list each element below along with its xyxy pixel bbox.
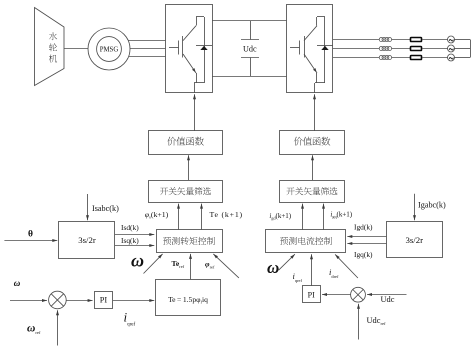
inductor La: [379, 37, 391, 41]
wire: [422, 39, 448, 41]
svg-text:θ: θ: [28, 229, 33, 239]
svg-text:Igd(k): Igd(k): [354, 222, 373, 231]
generator PMSG inner: [97, 37, 122, 62]
svg-text:3s/2r: 3s/2r: [78, 235, 96, 245]
diode arrowhead: [200, 46, 207, 50]
IGBT emitter slant: [304, 54, 317, 73]
label 预测电流控制: [280, 237, 332, 245]
wire igq prediction: [322, 204, 325, 230]
IGBT body bar: [304, 36, 306, 58]
wire iqref to PCC: [335, 254, 358, 278]
label 预测转矩控制: [163, 237, 215, 245]
wire gate drive to grid converter: [313, 94, 316, 131]
svg-text:ω: ω: [131, 251, 144, 271]
wire Udc_ref to summer: [357, 304, 360, 340]
wire Udc to summer: [367, 293, 407, 296]
wire to bus: [455, 48, 471, 50]
IGBT gate bar: [178, 41, 180, 55]
svg-text:3s/2r: 3s/2r: [405, 235, 423, 245]
wire Igabc into 3s/2r: [413, 194, 416, 221]
wire Te_ref to PTC: [189, 254, 192, 279]
wire grid phase c: [333, 57, 379, 59]
wire top bracket: [196, 16, 204, 18]
box predictive current control: [266, 230, 346, 253]
capacitor Udc plate top: [241, 39, 259, 41]
AC source b: [448, 45, 455, 52]
wire summer to PI R: [322, 293, 351, 296]
box 3s/2r grid: [387, 222, 443, 258]
wire PI to Te box: [113, 299, 154, 302]
wire grid phase a: [333, 39, 379, 41]
label 水轮机: [49, 32, 57, 62]
IGBT gate bar: [299, 41, 301, 55]
wire cap bottom lead: [250, 58, 252, 77]
label 价值函数 R: [294, 137, 331, 146]
box predictive torque control: [157, 230, 223, 253]
wire idref to PCC: [310, 254, 313, 286]
wire cap top lead: [250, 21, 252, 40]
AC source a: [448, 36, 455, 43]
wire torque prediction: [200, 204, 203, 230]
wire omega_ref to summer: [56, 310, 59, 345]
wire theta input: [4, 239, 57, 242]
diode cathode bar: [196, 45, 212, 47]
wire stator phase a: [129, 40, 166, 42]
wire summer to PI L: [66, 299, 92, 302]
grid bus vertical: [470, 40, 472, 58]
svg-text:Udc: Udc: [243, 45, 257, 54]
svg-text:Igabc(k): Igabc(k): [418, 201, 446, 210]
machine-side converter box: [166, 5, 213, 93]
wire omega to summer: [10, 299, 47, 302]
svg-text:Te (k+1): Te (k+1): [210, 210, 243, 219]
resistor Ra: [411, 38, 422, 42]
svg-text:Isabc(k): Isabc(k): [92, 204, 119, 213]
inductor Lb: [379, 46, 391, 50]
diode branch vertical: [324, 17, 326, 83]
wire emitter down: [316, 73, 318, 83]
wire grid phase b: [333, 48, 379, 50]
grid-side converter box: [287, 5, 333, 93]
summing junction R: [351, 287, 366, 302]
wire gate lead: [290, 47, 300, 49]
wire to bus: [455, 39, 471, 41]
svg-text:Te = 1.5pφfiq: Te = 1.5pφfiq: [168, 295, 208, 304]
capacitor Udc plate bottom: [241, 57, 259, 59]
wire control stub: [314, 83, 316, 93]
wire Igq: [347, 242, 386, 245]
label 开关矢量筛选 R: [286, 187, 337, 195]
wire DC+ rail: [212, 20, 287, 22]
box 3s/2r stator: [59, 222, 115, 259]
summing junction L: [49, 291, 67, 309]
wire flux prediction: [177, 204, 180, 230]
wire gate lead: [169, 47, 179, 49]
wire stator phase c: [129, 56, 166, 58]
wire: [422, 57, 448, 59]
turbine (water turbine 水轮机): [35, 8, 65, 86]
IGBT collector slant: [183, 26, 196, 41]
wire collector up: [316, 17, 318, 26]
box Te=1.5p phi iq: [156, 280, 221, 316]
wire to bus: [455, 57, 471, 59]
wire Isq: [115, 244, 154, 247]
label 价值函数 L: [167, 137, 204, 146]
box PI L: [95, 292, 113, 309]
resistor Rb: [411, 47, 422, 51]
wire collector up: [196, 17, 198, 26]
svg-text:ω: ω: [14, 278, 21, 288]
wire Isd: [115, 233, 154, 236]
wire: [422, 48, 448, 50]
wire bottom bracket: [194, 82, 204, 84]
wire: [392, 39, 411, 41]
svg-text:PMSG: PMSG: [100, 46, 119, 53]
svg-text:ω: ω: [267, 258, 279, 277]
wire Isabc into 3s/2r: [86, 194, 89, 220]
IGBT collector slant: [304, 26, 317, 41]
inductor Lc: [379, 55, 391, 59]
wire gate drive to machine converter: [193, 94, 196, 131]
wire omega to PTC: [144, 254, 163, 274]
label 开关矢量筛选 L: [160, 187, 211, 195]
diode arrowhead: [321, 46, 328, 50]
wire stator phase b: [130, 48, 166, 50]
wire top bracket: [317, 16, 325, 18]
svg-text:Igq(k): Igq(k): [354, 250, 373, 259]
diode cathode bar: [317, 45, 333, 47]
box PI R: [303, 286, 321, 303]
IGBT emitter arrow: [313, 68, 317, 72]
wire DC- rail: [212, 76, 287, 78]
svg-text:PI: PI: [308, 290, 315, 299]
svg-text:Udc: Udc: [381, 295, 395, 304]
wire control stub: [194, 83, 196, 93]
wire igd prediction: [301, 204, 304, 230]
box switching vector selection L: [149, 181, 223, 203]
wire: [392, 57, 411, 59]
svg-text:φs(k+1): φs(k+1): [145, 210, 169, 220]
AC source c: [448, 54, 455, 61]
svg-text:PI: PI: [100, 296, 108, 305]
wire Igd: [347, 235, 386, 238]
box switching vector selection R: [280, 181, 345, 203]
wire phi_ref to PTC: [213, 254, 239, 278]
generator PMSG outer: [88, 28, 130, 70]
wire shaft PMSG: [64, 48, 88, 50]
wire bottom bracket: [315, 82, 325, 84]
IGBT body bar: [182, 36, 184, 58]
wire: [392, 48, 411, 50]
wire omega to PCC: [279, 254, 295, 270]
wire to cost function R: [311, 155, 314, 180]
box cost function L: [149, 131, 223, 155]
diode branch vertical: [204, 17, 206, 83]
wire to cost function L: [187, 155, 190, 180]
IGBT emitter arrow: [192, 68, 196, 72]
box cost function R: [280, 131, 345, 155]
svg-text:Isd(k): Isd(k): [121, 223, 139, 232]
IGBT emitter slant: [183, 54, 196, 73]
wire emitter down: [196, 73, 198, 83]
resistor Rc: [411, 56, 422, 60]
svg-text:Isq(k): Isq(k): [121, 236, 139, 245]
